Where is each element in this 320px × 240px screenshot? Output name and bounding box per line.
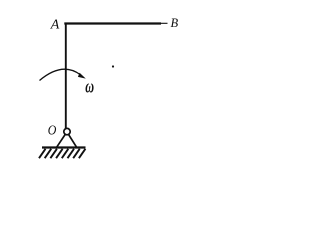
ground line [42, 146, 86, 148]
pin support triangle [56, 133, 77, 149]
svg-text:B: B [171, 16, 179, 30]
arrowhead of omega arc [78, 73, 86, 79]
svg-text:O: O [48, 124, 57, 139]
wire: vertical bar A-O [65, 23, 67, 129]
wire: thin right tail of bar near B [160, 22, 168, 24]
pin circle at O [64, 128, 70, 134]
angular velocity arc arrow [40, 69, 81, 80]
svg-text:ω: ω [85, 76, 94, 97]
ground hatching [39, 149, 85, 158]
wire: horizontal bar A-B [64, 22, 161, 24]
stray dot speck [112, 65, 114, 67]
svg-text:A: A [50, 17, 60, 32]
omega label [85, 76, 94, 97]
